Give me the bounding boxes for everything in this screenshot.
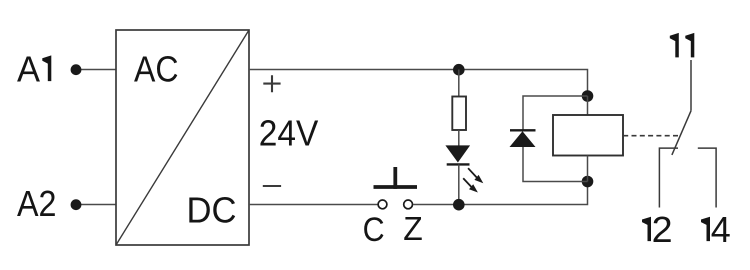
relay coil K1: [553, 115, 623, 156]
svg-text:C: C: [363, 211, 385, 249]
diode D2 (flyback): [510, 130, 536, 147]
AC/DC converter box: [116, 30, 249, 245]
LED D1: [445, 145, 470, 164]
svg-text:2: 2: [652, 209, 673, 250]
svg-text:A2: A2: [17, 183, 57, 224]
terminal dot A1: [71, 64, 82, 75]
minus symbol: [263, 185, 281, 187]
wire terminal 11: [690, 60, 692, 111]
label 14: [701, 217, 710, 241]
junction node top (resistor branch): [453, 64, 465, 76]
wire diode loop top: [523, 96, 588, 130]
junction node bottom (LED branch): [453, 199, 465, 211]
contact 14 (NO): [698, 148, 716, 207]
svg-text:4: 4: [711, 209, 731, 250]
bottom rail wire right: [413, 182, 587, 205]
wire relay coil to bottom junction: [587, 156, 589, 182]
LED emission arrow 2: [463, 178, 478, 192]
resistor: [452, 97, 466, 131]
converter diagonal: [116, 30, 249, 245]
svg-text:24V: 24V: [259, 112, 319, 153]
terminal dot A2: [71, 199, 82, 210]
wire LED to bottom rail: [458, 164, 460, 204]
wire junction to resistor: [458, 70, 460, 97]
contact moving blade: [672, 111, 691, 155]
label 11: [670, 33, 679, 58]
wire diode loop bottom: [523, 147, 588, 182]
svg-text:DC: DC: [187, 189, 237, 230]
junction node relay bottom: [582, 176, 594, 188]
plus symbol: [263, 75, 280, 92]
label 12: [642, 217, 651, 241]
junction node relay top: [582, 90, 594, 102]
push button actuator bar: [374, 185, 418, 189]
svg-text:Z: Z: [403, 210, 423, 247]
svg-text:AC: AC: [134, 48, 179, 89]
wire junction to relay coil: [587, 96, 589, 115]
top rail wire: [249, 70, 588, 97]
wire A2 to converter: [76, 204, 116, 206]
mechanical link (dashed): [623, 135, 680, 137]
push button contact C: [378, 200, 387, 209]
contact 12 (NC): [659, 148, 678, 207]
LED emission arrow 1: [468, 168, 483, 183]
bottom rail wire left: [249, 204, 378, 206]
push button actuator stem: [393, 167, 397, 189]
push button contact Z: [404, 200, 413, 209]
svg-text:A: A: [17, 49, 40, 90]
wire resistor to LED: [458, 130, 460, 146]
wire A1 to converter: [76, 69, 116, 71]
